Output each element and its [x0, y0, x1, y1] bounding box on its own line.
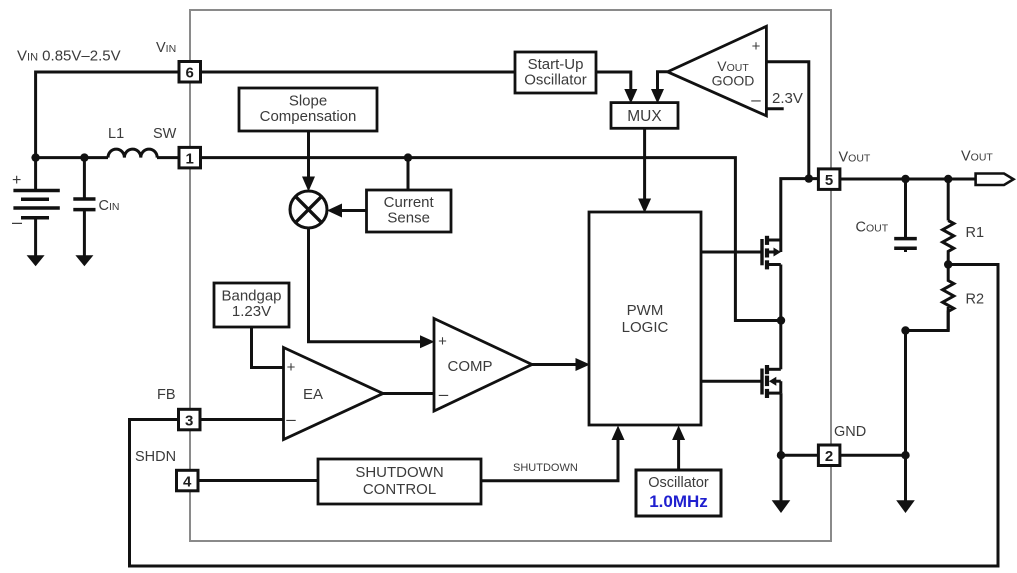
- svg-text:CIN: CIN: [99, 198, 120, 214]
- wire VOUT pin5 to FET drain: [781, 179, 818, 240]
- svg-text:VOUT: VOUT: [961, 149, 993, 165]
- svg-text:Current: Current: [384, 194, 435, 211]
- resistor R1: [943, 221, 954, 265]
- svg-text:VOUT: VOUT: [839, 150, 871, 166]
- arrow into PWM left: [576, 358, 591, 371]
- wire R2 bottom lead: [906, 307, 949, 331]
- ground FET: [772, 500, 791, 513]
- svg-text:3: 3: [185, 412, 193, 429]
- svg-text:SHDN: SHDN: [135, 449, 176, 465]
- wire feedback loop: [130, 265, 999, 567]
- pin 3: [179, 409, 201, 430]
- wire MUX to PWM: [643, 128, 646, 199]
- block Start-Up Oscillator: [515, 52, 596, 93]
- svg-text:R2: R2: [966, 292, 985, 308]
- svg-text:PWM: PWM: [627, 302, 664, 319]
- wire oscillator to PWM: [677, 439, 680, 470]
- svg-text:Slope: Slope: [289, 93, 327, 110]
- inductor L1: [108, 149, 157, 158]
- svg-text:2.3V: 2.3V: [772, 90, 803, 107]
- comparator COMP: [434, 319, 532, 412]
- svg-text:EA: EA: [303, 386, 323, 403]
- wire bandgap to EA plus: [252, 327, 284, 368]
- wire GND line: [781, 454, 906, 457]
- block Bandgap: [214, 283, 289, 327]
- svg-text:Bandgap: Bandgap: [221, 288, 281, 305]
- block Current Sense: [367, 190, 452, 232]
- pin 6: [179, 62, 201, 83]
- svg-text:Sense: Sense: [387, 210, 430, 227]
- wire multiplier to COMP plus: [309, 228, 422, 342]
- svg-text:5: 5: [825, 172, 833, 189]
- arrow into MUX left: [624, 89, 637, 104]
- block MUX: [611, 103, 678, 129]
- pin 4: [177, 470, 199, 491]
- svg-text:CONTROL: CONTROL: [363, 481, 436, 498]
- svg-text:R1: R1: [966, 225, 985, 241]
- svg-text:VIN 0.85V–2.5V: VIN 0.85V–2.5V: [17, 48, 121, 65]
- pin 2: [818, 445, 840, 466]
- wire SHDN pin to shutdown control: [198, 479, 318, 482]
- svg-text:COUT: COUT: [856, 220, 889, 236]
- svg-text:1.23V: 1.23V: [232, 303, 271, 320]
- transistor M1 top FET: [701, 236, 781, 321]
- pin 1: [179, 147, 201, 168]
- op-amp EA: [284, 348, 384, 440]
- capacitor COUT: [894, 239, 917, 252]
- svg-text:FB: FB: [157, 387, 176, 403]
- wire bottom FET source to ground: [780, 393, 783, 501]
- svg-text:1: 1: [186, 150, 194, 167]
- block Oscillator 1.0MHz: [636, 470, 721, 516]
- wire COUT ground branch: [904, 331, 907, 502]
- svg-text:+: +: [438, 333, 447, 350]
- arrow shutdown into PWM: [612, 426, 625, 441]
- wire EA output to COMP minus: [383, 392, 434, 395]
- comparator VOUT GOOD: [668, 26, 767, 116]
- arrowheads: [302, 89, 685, 440]
- arrow into PWM top: [638, 199, 651, 214]
- svg-text:+: +: [752, 38, 761, 55]
- svg-text:Start-Up: Start-Up: [528, 56, 584, 73]
- svg-text:+: +: [12, 172, 21, 189]
- svg-text:Compensation: Compensation: [260, 108, 357, 125]
- svg-text:L1: L1: [108, 126, 124, 142]
- wire R1 top lead: [947, 179, 950, 221]
- wire VOUT line to output: [841, 178, 976, 181]
- svg-text:Oscillator: Oscillator: [524, 72, 587, 89]
- svg-text:2: 2: [825, 448, 833, 465]
- pin 5: [818, 169, 840, 190]
- svg-text:Oscillator: Oscillator: [648, 475, 709, 491]
- svg-text:VIN: VIN: [156, 40, 176, 56]
- wire shutdown control to PWM: [481, 439, 618, 481]
- block SHUTDOWN CONTROL: [318, 459, 481, 504]
- wire VIN horizontal: [36, 72, 515, 158]
- svg-text:LOGIC: LOGIC: [622, 319, 669, 336]
- svg-text:GOOD: GOOD: [712, 73, 755, 89]
- svg-text:–: –: [12, 212, 22, 232]
- wire FB pin to EA minus: [200, 418, 284, 421]
- block PWM LOGIC: [589, 212, 701, 425]
- resistor R2: [943, 265, 954, 331]
- multiplier X1: [290, 191, 327, 228]
- capacitor CIN: [73, 158, 95, 257]
- wire current sense tap: [407, 158, 410, 190]
- svg-text:SHUTDOWN: SHUTDOWN: [355, 464, 443, 481]
- battery BT1: [13, 158, 59, 257]
- svg-text:–: –: [286, 410, 296, 429]
- arrow oscillator into PWM: [672, 426, 685, 441]
- wire start-up oscillator to MUX: [596, 72, 631, 90]
- IC boundary: [190, 10, 831, 541]
- block Slope Compensation: [239, 88, 377, 131]
- output terminal VOUT flag: [976, 174, 1014, 186]
- wire slope compensation to multiplier: [307, 131, 310, 178]
- wire COMP output to PWM: [532, 363, 577, 366]
- arrow into COMP plus: [420, 335, 435, 348]
- svg-text:SHUTDOWN: SHUTDOWN: [513, 462, 578, 474]
- svg-text:GND: GND: [834, 424, 866, 440]
- wire comparator output to MUX: [658, 72, 668, 90]
- wire comparator minus stub: [766, 107, 783, 110]
- transistor M2 bottom FET: [701, 321, 781, 399]
- ground battery: [27, 255, 45, 266]
- wire current sense to multiplier: [341, 209, 367, 212]
- arrow into multiplier top: [302, 177, 315, 192]
- ground COUT: [896, 500, 915, 513]
- arrow into MUX right: [651, 89, 664, 104]
- svg-text:–: –: [439, 385, 449, 404]
- svg-text:SW: SW: [153, 126, 177, 142]
- svg-text:6: 6: [186, 65, 194, 82]
- svg-text:COMP: COMP: [448, 358, 493, 375]
- arrow into multiplier right: [327, 204, 342, 218]
- svg-text:MUX: MUX: [627, 108, 662, 125]
- wire SW: [36, 156, 108, 159]
- wire COUT top lead: [904, 179, 907, 239]
- svg-text:1.0MHz: 1.0MHz: [649, 492, 708, 511]
- svg-text:–: –: [751, 90, 761, 109]
- ground CIN: [75, 255, 93, 266]
- svg-text:+: +: [287, 359, 296, 376]
- svg-text:4: 4: [183, 473, 192, 490]
- wire comparator plus input to VOUT node: [766, 62, 808, 179]
